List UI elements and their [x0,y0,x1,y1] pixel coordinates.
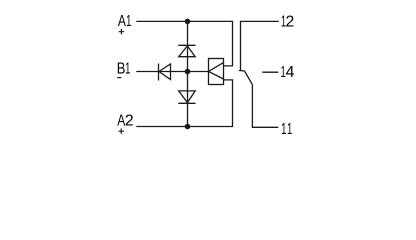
svg-text:A: A [118,12,127,30]
svg-text:1: 1 [281,119,286,137]
svg-text:1: 1 [125,59,130,77]
svg-text:4: 4 [286,64,295,81]
svg-text:2: 2 [286,13,295,30]
svg-text:1: 1 [287,119,292,137]
svg-text:2: 2 [125,113,134,130]
svg-text:1: 1 [126,12,131,30]
svg-text:B: B [117,61,126,78]
